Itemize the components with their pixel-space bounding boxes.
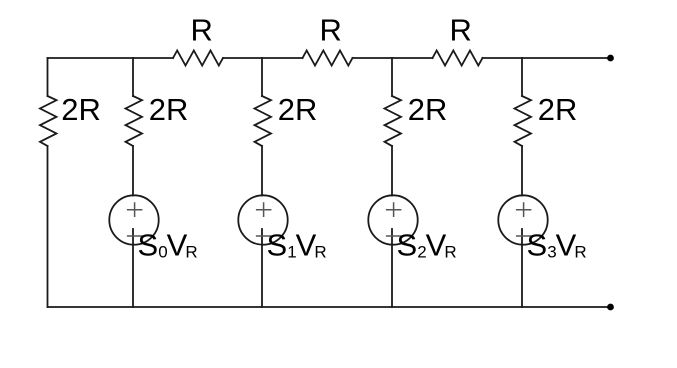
wire top rail: R1 right to R2 left <box>223 57 303 59</box>
svg-text:2R: 2R <box>149 92 189 127</box>
voltage source S0VR circle <box>109 195 158 244</box>
svg-text:R: R <box>450 12 472 47</box>
wire branch 5 resistor to source V3 <box>521 146 523 196</box>
wire branch 5 top stub <box>521 58 523 96</box>
wire branch 4 top stub <box>391 58 393 96</box>
terminal dot: bottom right node <box>607 304 614 311</box>
plus sign of source S1VR <box>256 202 272 217</box>
wire top rail: R3 right to output terminal <box>483 57 611 59</box>
wire top rail: R2 right to R3 left <box>353 57 433 59</box>
wire branch 3 top stub <box>261 58 263 96</box>
resistor R1 (top rail, left) <box>173 51 223 66</box>
wire branch 5 source to bottom rail <box>521 229 523 307</box>
wire branch 4 resistor to source V2 <box>391 146 393 196</box>
wire branch 1 top stub <box>47 58 49 96</box>
svg-text:2R: 2R <box>61 92 101 127</box>
wire branch 1 bottom <box>47 146 49 307</box>
resistor 2R (branch 2) <box>126 96 143 146</box>
svg-text:R: R <box>191 12 213 47</box>
svg-text:S1VR: S1VR <box>267 227 327 262</box>
resistor 2R (branch 1) <box>40 96 57 146</box>
wire branch 2 source to bottom rail <box>132 229 134 307</box>
resistor 2R (branch 4) <box>385 96 402 146</box>
plus sign of source S3VR <box>516 202 532 217</box>
svg-text:2R: 2R <box>538 92 578 127</box>
resistor R3 (top rail, right) <box>433 51 483 66</box>
minus sign of source S3VR <box>516 235 532 237</box>
svg-text:2R: 2R <box>408 92 448 127</box>
wire branch 2 top stub <box>132 58 134 96</box>
svg-text:S3VR: S3VR <box>527 227 587 262</box>
svg-text:R: R <box>320 12 342 47</box>
wire branch 4 source to bottom rail <box>391 229 393 307</box>
wire branch 2 resistor to source V0 <box>132 146 134 196</box>
wire branch 3 resistor to source V1 <box>261 146 263 196</box>
minus sign of source S0VR <box>127 235 142 237</box>
svg-text:S0VR: S0VR <box>138 227 198 262</box>
resistor 2R (branch 5) <box>515 96 532 146</box>
terminal dot: top right output node <box>607 55 614 62</box>
voltage source S1VR circle <box>238 195 287 244</box>
wire branch 3 source to bottom rail <box>261 229 263 307</box>
plus sign of source S2VR <box>386 202 402 217</box>
minus sign of source S2VR <box>386 235 402 237</box>
voltage source S2VR circle <box>368 195 417 244</box>
wire top rail: left corner to R1 left end <box>48 57 174 59</box>
wire bottom rail <box>48 306 611 308</box>
resistor R2 (top rail, middle) <box>303 51 353 66</box>
plus sign of source S0VR <box>127 202 142 217</box>
voltage source S3VR circle <box>498 195 547 244</box>
resistor 2R (branch 3) <box>255 96 272 146</box>
svg-text:S2VR: S2VR <box>397 227 457 262</box>
svg-text:2R: 2R <box>278 92 318 127</box>
minus sign of source S1VR <box>256 235 272 237</box>
